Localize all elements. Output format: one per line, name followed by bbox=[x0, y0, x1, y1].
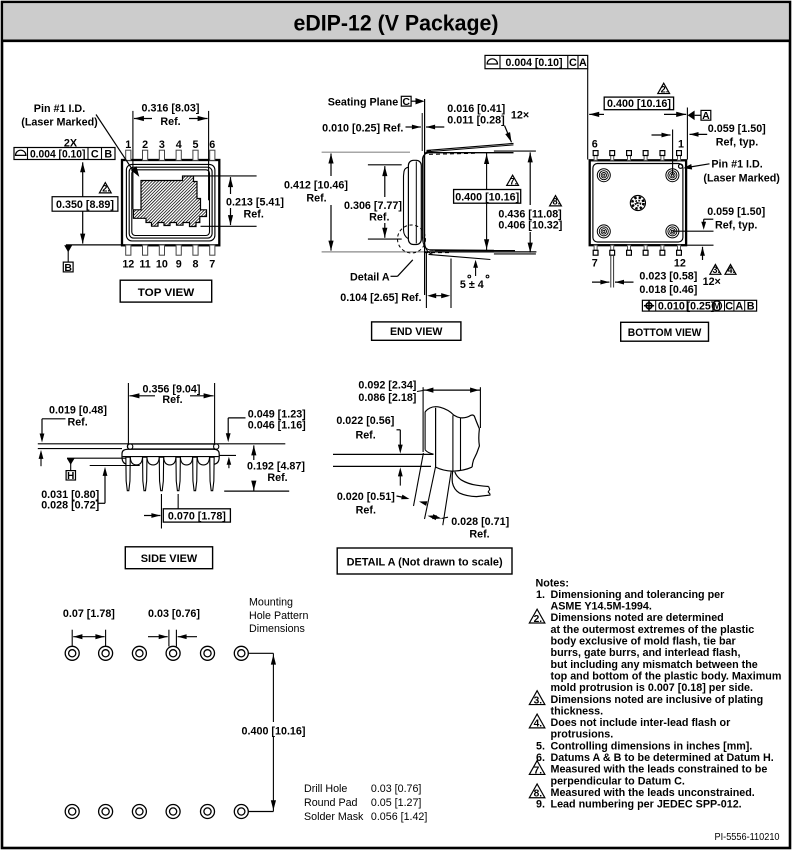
svg-text:Dimensions: Dimensions bbox=[249, 623, 305, 635]
svg-text:mold protrusion is 0.007 [0.18: mold protrusion is 0.007 [0.18] per side… bbox=[551, 682, 754, 694]
svg-text:12×: 12× bbox=[511, 110, 529, 122]
svg-text:10: 10 bbox=[156, 259, 168, 271]
svg-text:4: 4 bbox=[176, 139, 182, 151]
svg-text:2: 2 bbox=[142, 139, 148, 151]
svg-text:0.192 [4.87]: 0.192 [4.87] bbox=[247, 460, 305, 472]
svg-text:0.016 [0.41]: 0.016 [0.41] bbox=[447, 103, 505, 115]
svg-text:Notes:: Notes: bbox=[536, 577, 569, 589]
svg-text:0.104 [2.65] Ref.: 0.104 [2.65] Ref. bbox=[340, 292, 421, 304]
svg-text:0.004 [0.10]: 0.004 [0.10] bbox=[506, 57, 563, 69]
svg-text:5: 5 bbox=[193, 139, 199, 151]
svg-text:A: A bbox=[735, 301, 743, 313]
svg-text:Ref.: Ref. bbox=[469, 529, 489, 541]
svg-text:2.: 2. bbox=[102, 184, 110, 194]
svg-text:Ref.: Ref. bbox=[67, 417, 87, 429]
svg-text:Dimensions noted are inclusive: Dimensions noted are inclusive of platin… bbox=[551, 694, 764, 706]
svg-text:7: 7 bbox=[592, 258, 598, 270]
svg-text:0.022 [0.56]: 0.022 [0.56] bbox=[336, 415, 394, 427]
svg-text:C: C bbox=[725, 301, 733, 313]
svg-text:SIDE VIEW: SIDE VIEW bbox=[141, 553, 198, 565]
svg-text:0.07 [1.78]: 0.07 [1.78] bbox=[63, 608, 115, 620]
svg-text:0.056 [1.42]: 0.056 [1.42] bbox=[371, 811, 427, 823]
svg-text:1: 1 bbox=[678, 139, 684, 151]
svg-text:0.010: 0.010 bbox=[658, 301, 685, 313]
svg-text:Ref, typ.: Ref, typ. bbox=[716, 136, 758, 148]
svg-text:0.412 [10.46]: 0.412 [10.46] bbox=[284, 179, 348, 191]
svg-text:0.018 [0.46]: 0.018 [0.46] bbox=[639, 284, 697, 296]
svg-text:0.046 [1.16]: 0.046 [1.16] bbox=[248, 419, 306, 431]
svg-text:0.028 [0.71]: 0.028 [0.71] bbox=[451, 516, 509, 528]
svg-text:3.: 3. bbox=[712, 265, 720, 275]
svg-text:Dimensioning and tolerancing p: Dimensioning and tolerancing per bbox=[551, 589, 726, 601]
svg-text:0.306 [7.77]: 0.306 [7.77] bbox=[344, 200, 402, 212]
svg-text:END VIEW: END VIEW bbox=[390, 326, 443, 338]
svg-text:Pin #1 I.D.: Pin #1 I.D. bbox=[711, 158, 762, 170]
svg-text:0.059 [1.50]: 0.059 [1.50] bbox=[708, 123, 766, 135]
svg-text:ASME Y14.5M-1994.: ASME Y14.5M-1994. bbox=[551, 601, 652, 613]
svg-text:5.: 5. bbox=[536, 740, 545, 752]
svg-text:0.350 [8.89]: 0.350 [8.89] bbox=[56, 199, 114, 211]
svg-text:5 ± 4: 5 ± 4 bbox=[460, 279, 484, 291]
svg-text:thickness.: thickness. bbox=[551, 705, 604, 717]
svg-text:DETAIL A (Not drawn to scale): DETAIL A (Not drawn to scale) bbox=[347, 557, 503, 569]
svg-text:7.: 7. bbox=[510, 176, 518, 186]
svg-text:B: B bbox=[104, 148, 112, 160]
svg-text:Ref.: Ref. bbox=[267, 472, 287, 484]
svg-text:0.019 [0.48]: 0.019 [0.48] bbox=[49, 405, 107, 417]
svg-text:Measured with the leads constr: Measured with the leads constrained to b… bbox=[551, 764, 768, 776]
svg-text:0.059 [1.50]: 0.059 [1.50] bbox=[707, 206, 765, 218]
svg-text:11: 11 bbox=[139, 259, 150, 271]
svg-text:Ref.: Ref. bbox=[162, 394, 182, 406]
svg-text:protrusions.: protrusions. bbox=[551, 729, 614, 741]
svg-text:but including any mismatch bet: but including any mismatch between the bbox=[551, 659, 758, 671]
svg-text:BOTTOM VIEW: BOTTOM VIEW bbox=[628, 327, 702, 339]
svg-text:1.: 1. bbox=[536, 589, 545, 601]
svg-text:burrs, gate burrs, and interle: burrs, gate burrs, and interlead flash, bbox=[551, 647, 741, 659]
svg-text:9: 9 bbox=[176, 259, 182, 271]
svg-text:0.011 [0.28]: 0.011 [0.28] bbox=[447, 115, 504, 127]
svg-text:Measured with the leads uncons: Measured with the leads unconstrained. bbox=[551, 787, 755, 799]
svg-text:[0.25]: [0.25] bbox=[687, 300, 715, 312]
svg-text:Ref.: Ref. bbox=[244, 209, 264, 221]
svg-text:Detail A: Detail A bbox=[350, 271, 390, 283]
svg-text:Ref, typ.: Ref, typ. bbox=[715, 220, 757, 232]
svg-text:Mounting: Mounting bbox=[249, 597, 293, 609]
svg-text:Does not include inter-lead fl: Does not include inter-lead flash or bbox=[551, 717, 732, 729]
svg-text:Datums A & B to be determined: Datums A & B to be determined at Datum H… bbox=[551, 752, 774, 764]
svg-text:0.092 [2.34]: 0.092 [2.34] bbox=[358, 380, 416, 392]
svg-text:(Laser Marked): (Laser Marked) bbox=[703, 173, 780, 185]
svg-text:PI-5556-110210: PI-5556-110210 bbox=[715, 831, 780, 843]
svg-text:Seating Plane: Seating Plane bbox=[328, 96, 399, 108]
svg-text:0.316 [8.03]: 0.316 [8.03] bbox=[142, 103, 200, 115]
svg-text:0.05 [1.27]: 0.05 [1.27] bbox=[371, 797, 422, 809]
svg-text:Solder Mask: Solder Mask bbox=[304, 811, 364, 823]
svg-text:A: A bbox=[579, 57, 587, 69]
svg-text:Pin #1 I.D.: Pin #1 I.D. bbox=[34, 103, 85, 115]
svg-text:Controlling dimensions in inch: Controlling dimensions in inches [mm]. bbox=[551, 740, 753, 752]
svg-text:top and bottom of the plastic: top and bottom of the plastic body. Maxi… bbox=[551, 670, 782, 682]
svg-text:0.213 [5.41]: 0.213 [5.41] bbox=[226, 197, 284, 209]
svg-text:0.070 [1.78]: 0.070 [1.78] bbox=[168, 510, 226, 522]
svg-text:eDIP-12 (V Package): eDIP-12 (V Package) bbox=[294, 11, 499, 36]
svg-text:TOP VIEW: TOP VIEW bbox=[138, 287, 195, 299]
svg-text:(Laser Marked): (Laser Marked) bbox=[21, 116, 98, 128]
svg-text:6: 6 bbox=[209, 139, 215, 151]
svg-text:Ref.: Ref. bbox=[160, 116, 180, 128]
svg-text:0.03 [0.76]: 0.03 [0.76] bbox=[148, 608, 200, 620]
svg-text:4.: 4. bbox=[728, 265, 736, 275]
svg-text:7: 7 bbox=[209, 259, 215, 271]
svg-text:M: M bbox=[713, 300, 721, 311]
svg-text:0.028 [0.72]: 0.028 [0.72] bbox=[41, 499, 99, 511]
svg-text:2.: 2. bbox=[534, 614, 543, 625]
svg-text:body exclusive of mold flash,: body exclusive of mold flash, tie bar bbox=[551, 636, 737, 648]
svg-text:8.: 8. bbox=[552, 197, 560, 207]
svg-text:Ref.: Ref. bbox=[356, 505, 376, 517]
svg-text:C: C bbox=[569, 57, 577, 69]
svg-text:B: B bbox=[64, 262, 72, 274]
svg-text:Ref.: Ref. bbox=[306, 193, 326, 205]
svg-text:9.: 9. bbox=[536, 799, 545, 811]
svg-text:12: 12 bbox=[122, 259, 134, 271]
svg-text:0.086 [2.18]: 0.086 [2.18] bbox=[358, 392, 416, 404]
svg-text:0.400 [10.16]: 0.400 [10.16] bbox=[607, 98, 671, 110]
svg-text:3: 3 bbox=[159, 139, 165, 151]
svg-text:0.406 [10.32]: 0.406 [10.32] bbox=[498, 220, 562, 232]
svg-text:0.010 [0.25] Ref.: 0.010 [0.25] Ref. bbox=[322, 123, 403, 135]
svg-text:7.: 7. bbox=[534, 765, 543, 776]
svg-text:perpendicular to Datum C.: perpendicular to Datum C. bbox=[551, 775, 685, 787]
svg-text:Dimensions noted are determine: Dimensions noted are determined bbox=[551, 612, 724, 624]
svg-text:Ref.: Ref. bbox=[355, 430, 375, 442]
svg-text:0.436 [11.08]: 0.436 [11.08] bbox=[498, 208, 561, 220]
svg-text:0.400 [10.16]: 0.400 [10.16] bbox=[455, 191, 519, 203]
svg-text:0.023 [0.58]: 0.023 [0.58] bbox=[639, 271, 697, 283]
svg-text:12×: 12× bbox=[703, 276, 721, 288]
svg-text:C: C bbox=[91, 148, 99, 160]
svg-text:Round Pad: Round Pad bbox=[304, 797, 358, 809]
svg-text:Ref.: Ref. bbox=[369, 212, 389, 224]
svg-text:C: C bbox=[402, 96, 410, 108]
svg-text:0.004 [0.10]: 0.004 [0.10] bbox=[30, 148, 86, 160]
svg-text:0.03 [0.76]: 0.03 [0.76] bbox=[371, 783, 422, 795]
svg-text:2.: 2. bbox=[661, 84, 669, 94]
svg-text:4.: 4. bbox=[534, 719, 543, 730]
svg-text:B: B bbox=[747, 301, 755, 313]
svg-text:0.020 [0.51]: 0.020 [0.51] bbox=[337, 491, 395, 503]
svg-text:0.400 [10.16]: 0.400 [10.16] bbox=[242, 726, 306, 738]
svg-text:1: 1 bbox=[125, 139, 131, 151]
svg-text:12: 12 bbox=[674, 258, 686, 270]
svg-text:8: 8 bbox=[193, 259, 199, 271]
svg-text:Hole Pattern: Hole Pattern bbox=[249, 610, 308, 622]
svg-text:at the outermost extremes of t: at the outermost extremes of the plastic bbox=[551, 624, 755, 636]
svg-text:3.: 3. bbox=[534, 695, 543, 706]
svg-text:Drill Hole: Drill Hole bbox=[304, 783, 347, 795]
svg-text:H: H bbox=[67, 471, 74, 482]
svg-text:A: A bbox=[702, 110, 710, 122]
svg-text:6: 6 bbox=[592, 139, 598, 151]
svg-text:Lead numbering per JEDEC SPP-0: Lead numbering per JEDEC SPP-012. bbox=[551, 799, 742, 811]
